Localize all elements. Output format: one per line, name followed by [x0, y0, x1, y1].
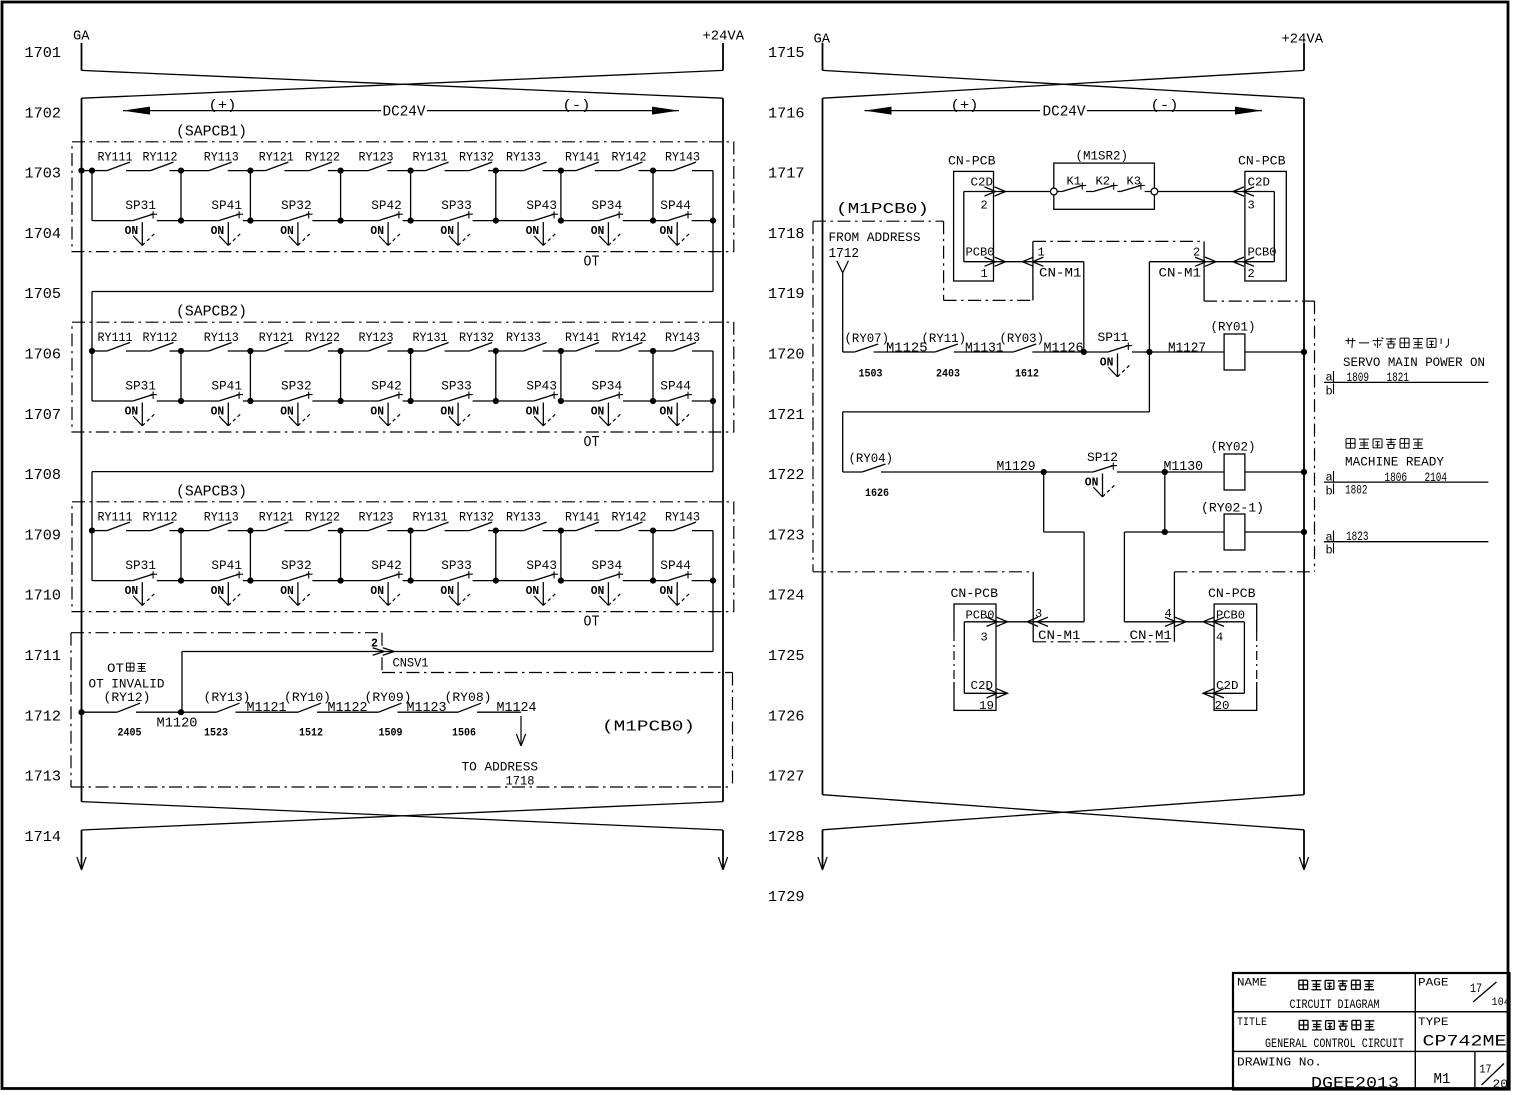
svg-text:RY113: RY113 [204, 510, 239, 524]
limit switch contact SP34 (SAPCB2) [592, 379, 624, 401]
limit switch contact SP34 (SAPCB1) [592, 198, 624, 220]
node row1720/CN-M1 pin1 [1081, 349, 1087, 355]
svg-text:1724: 1724 [768, 588, 805, 605]
relay coil RY02 [1211, 440, 1256, 491]
svg-text:M1123: M1123 [407, 701, 447, 716]
svg-text:M1126: M1126 [1044, 342, 1084, 357]
svg-text:3: 3 [1035, 607, 1042, 621]
svg-text:1722: 1722 [768, 467, 805, 484]
contact RY112 (SAPCB2) [143, 331, 178, 351]
node top row x=495.8 (SAPCB1) [493, 168, 499, 174]
svg-text:SP43: SP43 [526, 198, 557, 213]
node SP row x=560.9 (SAPCB3) [558, 578, 564, 584]
svg-text:RY143: RY143 [665, 150, 700, 164]
wire CN-M1 pin 2 to row 1720 [1148, 262, 1150, 352]
svg-text:20: 20 [1215, 700, 1230, 713]
svg-text:SP44: SP44 [660, 379, 691, 394]
contact RY03 [1000, 331, 1045, 352]
actuator ON arrow of SP34 (SAPCB2) [591, 403, 621, 426]
svg-text:19: 19 [979, 700, 994, 713]
wire CN-M1 pin 1 to row 1720 [1083, 262, 1085, 352]
limit switch contact SP44 (SAPCB2) [660, 379, 692, 401]
svg-text:RY121: RY121 [259, 331, 294, 345]
node M1120 [178, 709, 184, 715]
node OT output (SAPCB1) [710, 218, 716, 224]
contact K1 [1062, 175, 1086, 191]
node top row x=653 (SAPCB1) [650, 168, 656, 174]
svg-text:OT: OT [584, 434, 600, 451]
svg-text:SERVO MAIN POWER ON: SERVO MAIN POWER ON [1343, 355, 1485, 370]
actuator ON arrow of SP44 (SAPCB1) [660, 222, 690, 245]
actuator ON arrow of SP44 (SAPCB3) [660, 582, 690, 605]
wire rail to SAPCB1 input [82, 170, 93, 172]
connector CN-M1 pin 4 [1130, 607, 1187, 643]
svg-text:GENERAL CONTROL CIRCUIT: GENERAL CONTROL CIRCUIT [1265, 1036, 1404, 1051]
contact RY132 (SAPCB3) [459, 510, 494, 530]
svg-text:(RY13): (RY13) [204, 690, 251, 705]
contact K2 [1093, 175, 1117, 191]
svg-text:(RY11): (RY11) [922, 331, 967, 346]
svg-text:1712: 1712 [829, 247, 860, 262]
node OT output (SAPCB2) [710, 398, 716, 404]
actuator ON arrow of SP12 [1085, 474, 1115, 497]
limit switch contact SP31 (SAPCB1) [125, 198, 157, 220]
wire vertical link x=181 (SAPCB3) [180, 531, 182, 581]
svg-text:RY133: RY133 [506, 150, 541, 164]
wire vertical link x=410.6 (SAPCB2) [410, 351, 412, 401]
svg-text:RY123: RY123 [359, 331, 394, 345]
wire vertical link x=410.6 (SAPCB3) [410, 531, 412, 581]
svg-text:2: 2 [981, 199, 988, 213]
node top row x=560.9 (SAPCB2) [558, 348, 564, 354]
contact RY122 (SAPCB3) [305, 510, 340, 530]
connector CN-PCB body (top-right) [1245, 171, 1286, 281]
svg-text:RY143: RY143 [665, 510, 700, 524]
wire vertical link x=495.8 (SAPCB3) [495, 531, 497, 581]
actuator ON arrow of SP42 (SAPCB2) [370, 403, 400, 426]
svg-text:NAME: NAME [1237, 978, 1267, 990]
svg-text:SP41: SP41 [211, 379, 242, 394]
svg-text:1713: 1713 [25, 769, 62, 786]
node SP row x=495.8 (SAPCB2) [493, 398, 499, 404]
svg-text:RY121: RY121 [259, 510, 294, 524]
node top row x=181 (SAPCB1) [178, 168, 184, 174]
svg-text:RY131: RY131 [413, 331, 448, 345]
power rail (+) left bus (right sheet) [822, 98, 824, 795]
svg-text:1728: 1728 [768, 829, 805, 846]
svg-text:TYPE: TYPE [1418, 1017, 1449, 1029]
contact RY142 (SAPCB2) [612, 331, 647, 351]
wire vertical link x=653 (SAPCB1) [652, 171, 654, 221]
node SP row x=410.6 (SAPCB2) [408, 398, 414, 404]
connector CN-PCB body (top-left) [954, 171, 994, 281]
svg-text:MACHINE READY: MACHINE READY [1345, 455, 1444, 470]
wire row 1723 segments [1124, 531, 1304, 533]
limit switch contact SP31 (SAPCB2) [125, 379, 157, 401]
svg-text:RY141: RY141 [565, 331, 600, 345]
node SP row x=181 (SAPCB2) [178, 398, 184, 404]
svg-text:1727: 1727 [768, 769, 805, 786]
actuator ON arrow of SP31 (SAPCB1) [125, 222, 155, 245]
svg-text:RY133: RY133 [506, 510, 541, 524]
contact RY121 (SAPCB3) [259, 510, 294, 530]
svg-text:TITLE: TITLE [1237, 1017, 1267, 1029]
svg-text:CP742ME: CP742ME [1423, 1033, 1507, 1051]
node row1723 on (-) rail [1301, 529, 1307, 535]
svg-text:M1124: M1124 [497, 701, 537, 716]
limit switch contact SP32 (SAPCB2) [281, 379, 313, 401]
svg-text:RY113: RY113 [204, 331, 239, 345]
svg-text:CN-PCB: CN-PCB [1238, 154, 1286, 169]
contact RY123 (SAPCB1) [359, 150, 394, 170]
contact RY08 [445, 690, 492, 712]
actuator ON arrow of SP32 (SAPCB1) [280, 222, 310, 245]
svg-text:(RY10): (RY10) [284, 690, 331, 705]
svg-text:(RY02): (RY02) [1211, 440, 1256, 455]
node SP row x=410.6 (SAPCB3) [408, 578, 414, 584]
node row1723 M1130 junction [1162, 529, 1168, 535]
actuator ON arrow of SP44 (SAPCB2) [660, 403, 690, 426]
pin C2D-2 of CN-PCB top-left [964, 175, 1051, 212]
limit switch contact SP33 (SAPCB3) [441, 558, 473, 580]
pin C2D-19 of CN-PCB bottom-left [964, 679, 1007, 713]
node top row x=250.4 (SAPCB3) [247, 528, 253, 534]
limit switch contact SP33 (SAPCB1) [441, 198, 473, 220]
svg-text:ON: ON [1100, 356, 1114, 370]
svg-text:PAGE: PAGE [1418, 978, 1449, 990]
svg-text:SP34: SP34 [592, 198, 623, 213]
connector CN-M1 cable bracket (bottom pin4) [1173, 572, 1175, 642]
svg-text:1509: 1509 [379, 728, 403, 740]
connector CN-M1 cable bracket (top pin2) [1203, 241, 1205, 301]
contact RY132 (SAPCB2) [459, 331, 494, 351]
svg-text:2: 2 [371, 637, 378, 650]
connector CN-M1 pin 2 [1159, 245, 1217, 280]
svg-text:(SAPCB3): (SAPCB3) [176, 484, 247, 500]
svg-text:1719: 1719 [768, 286, 805, 303]
svg-text:SP31: SP31 [125, 379, 156, 394]
svg-text:OT: OT [107, 662, 125, 676]
output annotation SERVO MAIN POWER ON (row 1720) [1324, 337, 1488, 398]
svg-text:K3: K3 [1127, 175, 1142, 188]
contact RY111 (SAPCB1) [98, 150, 133, 170]
svg-text:C2D: C2D [1248, 175, 1271, 189]
svg-text:1: 1 [1038, 245, 1045, 259]
node top row x=560.9 (SAPCB1) [558, 168, 564, 174]
svg-text:SP31: SP31 [125, 558, 156, 573]
svg-text:CN-M1: CN-M1 [1130, 628, 1173, 643]
svg-text:1626: 1626 [865, 488, 889, 500]
connector CNSV1 pin 2 arrow [371, 637, 429, 670]
svg-text:ON: ON [526, 584, 540, 598]
svg-text:(M1SR2): (M1SR2) [1076, 149, 1129, 164]
wire SP row (SAPCB3) [92, 580, 713, 582]
pin C2D-20 of CN-PCB bottom-right [1203, 679, 1244, 713]
svg-text:K2: K2 [1096, 175, 1111, 188]
contact RY123 (SAPCB3) [359, 510, 394, 530]
contact RY133 (SAPCB1) [506, 150, 547, 170]
svg-text:M1: M1 [1434, 1072, 1451, 1088]
svg-text:1714: 1714 [25, 829, 62, 846]
svg-text:RY141: RY141 [565, 150, 600, 164]
svg-text:RY111: RY111 [98, 510, 133, 524]
svg-text:(RY01): (RY01) [1211, 320, 1256, 335]
svg-text:17: 17 [1470, 982, 1482, 996]
rail crossover wire +24VA to left (right sheet) [823, 70, 1305, 98]
svg-text:ON: ON [125, 584, 139, 598]
node top row x=250.4 (SAPCB1) [247, 168, 253, 174]
svg-text:1706: 1706 [25, 347, 62, 364]
svg-text:RY132: RY132 [459, 510, 494, 524]
svg-text:PCB0: PCB0 [966, 608, 995, 622]
svg-text:M1129: M1129 [997, 460, 1036, 475]
svg-text:ON: ON [211, 224, 225, 238]
svg-text:1729: 1729 [768, 889, 805, 906]
limit switch contact SP34 (SAPCB3) [592, 558, 624, 580]
wire top row drop to OT row (SAPCB3) [712, 531, 714, 581]
wire vertical link x=560.9 (SAPCB2) [560, 351, 562, 401]
svg-text:1523: 1523 [204, 728, 228, 740]
svg-text:C2D: C2D [971, 175, 994, 189]
svg-text:SP31: SP31 [125, 198, 156, 213]
svg-text:RY132: RY132 [459, 331, 494, 345]
limit switch contact SP31 (SAPCB3) [125, 558, 157, 580]
node SP row x=560.9 (SAPCB2) [558, 398, 564, 404]
output annotation 1823 (row 1723) [1324, 530, 1488, 558]
svg-text:(M1PCB0): (M1PCB0) [836, 201, 929, 218]
power rail continuation arrow right-bottom (left sheet) [718, 830, 727, 870]
svg-text:SP42: SP42 [371, 379, 402, 394]
node top row x=495.8 (SAPCB3) [493, 528, 499, 534]
node SP row x=181 (SAPCB1) [178, 218, 184, 224]
limit switch contact SP44 (SAPCB1) [660, 198, 692, 220]
actuator ON arrow of SP32 (SAPCB2) [280, 403, 310, 426]
svg-text:ON: ON [370, 224, 384, 238]
contact RY143 (SAPCB3) [665, 510, 700, 530]
actuator ON arrow of SP41 (SAPCB1) [211, 222, 241, 245]
svg-text:1809: 1809 [1347, 371, 1370, 385]
node SP row x=250.4 (SAPCB1) [247, 218, 253, 224]
svg-text:RY131: RY131 [413, 510, 448, 524]
svg-text:3: 3 [1248, 199, 1255, 213]
rail crossover wire GA to right (right sheet) [823, 70, 1305, 98]
svg-text:(RY02-1): (RY02-1) [1201, 501, 1264, 516]
wire vertical link x=340.6 (SAPCB2) [340, 351, 342, 401]
svg-text:b: b [1326, 485, 1333, 499]
svg-text:(-): (-) [1151, 98, 1179, 114]
svg-text:(RY07): (RY07) [845, 331, 890, 346]
contact RY04 [849, 451, 894, 472]
svg-text:SP11: SP11 [1098, 330, 1129, 345]
svg-text:SP33: SP33 [441, 198, 472, 213]
svg-text:ON: ON [591, 584, 605, 598]
wire M1SR2 internal segments [1057, 191, 1151, 193]
wire top row (SAPCB1) [92, 170, 713, 172]
node input (SAPCB2) [89, 348, 95, 354]
node top row x=653 (SAPCB3) [650, 528, 656, 534]
contact RY113 (SAPCB2) [204, 331, 239, 351]
svg-text:M1120: M1120 [157, 716, 198, 731]
wire left link input to SP row (SAPCB3) [91, 531, 93, 581]
svg-text:1711: 1711 [25, 648, 62, 665]
actuator ON arrow of SP41 (SAPCB2) [211, 403, 241, 426]
svg-text:1709: 1709 [25, 527, 62, 544]
svg-text:M1122: M1122 [328, 701, 368, 716]
limit switch contact SP42 (SAPCB1) [371, 198, 403, 220]
contact RY143 (SAPCB2) [665, 331, 700, 351]
svg-text:(RY08): (RY08) [445, 690, 492, 705]
svg-text:CIRCUIT DIAGRAM: CIRCUIT DIAGRAM [1290, 997, 1380, 1012]
actuator ON arrow of SP33 (SAPCB1) [440, 222, 470, 245]
limit switch contact SP32 (SAPCB3) [281, 558, 313, 580]
svg-text:RY132: RY132 [459, 150, 494, 164]
contact RY131 (SAPCB1) [413, 150, 449, 170]
svg-text:CN-PCB: CN-PCB [1208, 586, 1256, 601]
node OT output (SAPCB3) [710, 578, 716, 584]
svg-text:b: b [1326, 544, 1333, 558]
wire vertical link x=181 (SAPCB2) [180, 351, 182, 401]
svg-text:+24VA: +24VA [703, 29, 745, 45]
wire row 1705 OT of SAPCB1 to SAPCB2 input [712, 221, 714, 292]
svg-text:SP32: SP32 [281, 198, 312, 213]
node SP row x=560.9 (SAPCB1) [558, 218, 564, 224]
wire row 1708 OT of SAPCB2 to SAPCB3 input [712, 402, 714, 472]
node M1129 [1041, 469, 1047, 475]
svg-text:M1131: M1131 [965, 342, 1004, 357]
contact RY111 (SAPCB3) [98, 510, 133, 530]
node SP row x=250.4 (SAPCB3) [247, 578, 253, 584]
svg-text:4: 4 [1216, 631, 1223, 645]
svg-text:4: 4 [1165, 607, 1172, 621]
svg-text:1506: 1506 [452, 728, 476, 740]
node SP row x=250.4 (SAPCB2) [247, 398, 253, 404]
wire row 1711 OT of SAPCB3 to node M1120 [712, 581, 714, 652]
svg-text:ON: ON [280, 224, 294, 238]
svg-text:b: b [1326, 385, 1333, 399]
svg-text:17: 17 [1480, 1064, 1492, 1077]
svg-text:1703: 1703 [25, 166, 62, 183]
actuator ON arrow of SP33 (SAPCB2) [440, 403, 470, 426]
svg-text:K1: K1 [1067, 175, 1082, 188]
svg-text:CNSV1: CNSV1 [393, 655, 429, 670]
connector CN-M1 pin 3 [1027, 607, 1081, 643]
svg-text:RY122: RY122 [305, 150, 340, 164]
node input (SAPCB1) [89, 168, 95, 174]
svg-text:ON: ON [660, 405, 674, 419]
node top row x=340.6 (SAPCB2) [338, 348, 344, 354]
svg-text:1702: 1702 [25, 105, 62, 122]
svg-text:+24VA: +24VA [1282, 32, 1324, 48]
wire vertical link x=653 (SAPCB2) [652, 351, 654, 401]
svg-text:1717: 1717 [768, 166, 805, 183]
svg-text:CN-M1: CN-M1 [1159, 266, 1202, 281]
svg-text:RY113: RY113 [204, 150, 239, 164]
rail crossover wire +24VA to left (left sheet) [82, 70, 724, 98]
node row1720/CN-M1 pin2 [1146, 349, 1152, 355]
node top row x=250.4 (SAPCB2) [247, 348, 253, 354]
svg-text:1701: 1701 [25, 45, 62, 62]
svg-text:ON: ON [280, 584, 294, 598]
svg-text:1715: 1715 [768, 45, 805, 62]
wire vertical link x=560.9 (SAPCB1) [560, 171, 562, 221]
svg-text:M1127: M1127 [1168, 342, 1206, 357]
limit switch contact SP44 (SAPCB3) [660, 558, 692, 580]
connector CN-M1 cable bracket (top pin1) [1032, 241, 1034, 300]
svg-text:1716: 1716 [768, 105, 805, 122]
svg-text:1708: 1708 [25, 467, 62, 484]
node top row x=410.6 (SAPCB3) [408, 528, 414, 534]
node: rail tap on (+) bus row 1712 [78, 709, 84, 715]
svg-text:2405: 2405 [118, 728, 142, 740]
wire vertical link x=181 (SAPCB1) [180, 171, 182, 221]
svg-text:SP34: SP34 [592, 379, 623, 394]
limit switch contact SP42 (SAPCB3) [371, 558, 403, 580]
pin C2D-3 of CN-PCB top-right [1158, 175, 1275, 212]
svg-text:RY122: RY122 [305, 331, 340, 345]
svg-text:DGEE2013: DGEE2013 [1311, 1075, 1399, 1093]
svg-text:1725: 1725 [768, 648, 805, 665]
contact RY11 [922, 331, 967, 352]
contact RY132 (SAPCB1) [459, 150, 494, 170]
wire top row drop to OT row (SAPCB2) [712, 351, 714, 401]
node row1720 on (-) rail [1301, 349, 1307, 355]
contact RY112 (SAPCB1) [143, 150, 178, 170]
actuator ON arrow of SP42 (SAPCB1) [370, 222, 400, 245]
node top row x=181 (SAPCB3) [178, 528, 184, 534]
svg-text:M1121: M1121 [247, 701, 287, 716]
power rail +24VA top segment (left sheet) [722, 43, 724, 70]
node SP row x=340.6 (SAPCB2) [338, 398, 344, 404]
svg-text:ON: ON [125, 224, 139, 238]
PCB outline (M1PCB0 right sheet) boundary [813, 221, 1315, 642]
actuator ON arrow of SP43 (SAPCB3) [526, 582, 556, 605]
svg-text:RY142: RY142 [612, 510, 647, 524]
node SP row x=653 (SAPCB2) [650, 398, 656, 404]
DC24V supply arrow (right sheet) [865, 98, 1263, 121]
wire vertical link x=410.6 (SAPCB1) [410, 171, 412, 221]
wire top row drop to OT row (SAPCB1) [712, 171, 714, 221]
power rail continuation arrow left-bottom (left sheet) [77, 830, 86, 870]
contact RY111 (SAPCB2) [98, 331, 133, 351]
svg-text:C2D: C2D [971, 679, 994, 693]
pin PCB0-2 of CN-PCB top-right [1149, 245, 1276, 281]
svg-text:RY112: RY112 [143, 331, 178, 345]
contact K3 [1121, 175, 1145, 191]
svg-text:M1130: M1130 [1164, 460, 1204, 475]
svg-text:PCB0: PCB0 [1248, 245, 1277, 259]
svg-text:GA: GA [73, 29, 90, 45]
svg-text:FROM ADDRESS: FROM ADDRESS [829, 230, 921, 245]
contact RY112 (SAPCB3) [143, 510, 178, 530]
actuator ON arrow of SP43 (SAPCB2) [526, 403, 556, 426]
wire row 1723 down to CN-M1 pin 4 [1123, 532, 1125, 622]
actuator ON arrow of SP32 (SAPCB3) [280, 582, 310, 605]
power rail (-) right bus (right sheet) [1303, 98, 1305, 795]
svg-text:1726: 1726 [768, 708, 805, 725]
svg-text:1802: 1802 [1345, 484, 1368, 498]
svg-text:SP43: SP43 [526, 379, 557, 394]
svg-text:SP42: SP42 [371, 558, 402, 573]
svg-text:OT: OT [584, 254, 600, 271]
wire row 1722 segments [843, 471, 1304, 473]
contact RY142 (SAPCB3) [612, 510, 647, 530]
svg-text:1718: 1718 [506, 774, 535, 789]
wire top row (SAPCB3) [92, 530, 713, 532]
node SP row x=495.8 (SAPCB3) [493, 578, 499, 584]
contact RY113 (SAPCB1) [204, 150, 239, 170]
actuator ON arrow of SP34 (SAPCB3) [591, 582, 621, 605]
power rail GA top segment (right sheet) [822, 43, 824, 70]
